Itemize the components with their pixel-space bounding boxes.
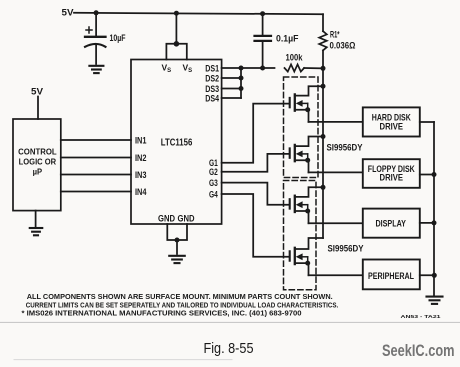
node return junction floppy (432, 172, 437, 177)
svg-text:R1*: R1* (330, 29, 340, 39)
wire DS4 (222, 97, 241, 99)
svg-text:LTC1156: LTC1156 (161, 136, 193, 148)
svg-text:CONTROL: CONTROL (18, 146, 57, 156)
wire gate G4 routing (222, 194, 289, 257)
transistor Q1 (Si9956DY half) (290, 86, 323, 122)
wire Vs bracket (166, 44, 186, 60)
load box display (363, 209, 420, 238)
wire Q2 source to floppy disk drive (309, 171, 363, 173)
wire DS3 (222, 88, 241, 90)
node rail junction at Vs feed (174, 11, 179, 16)
capacitor C2 0.1uF (255, 14, 272, 68)
svg-text:IN4: IN4 (135, 187, 147, 197)
node Q2 drain junction (321, 134, 326, 139)
transistor Q2 (Si9956DY half) (290, 137, 323, 173)
svg-text:0.036Ω: 0.036Ω (330, 40, 356, 50)
svg-text:LOGIC OR: LOGIC OR (19, 157, 57, 167)
svg-text:SI9956DY: SI9956DY (328, 244, 364, 254)
ground (below control box) (30, 228, 43, 235)
resistor R1 0.036ohm (319, 14, 327, 68)
node rail junction at C2 (260, 11, 265, 16)
wire drain bus (322, 68, 324, 238)
dashed package outline Si9956DY #1 (284, 77, 319, 178)
wire 5V to control box (37, 97, 39, 120)
dashed package outline Si9956DY #2 (284, 181, 317, 290)
wire gate G2 routing (222, 154, 289, 172)
load box floppy disk drive (363, 159, 420, 188)
svg-text:100k: 100k (286, 53, 304, 63)
wire IN3 from control logic (61, 174, 131, 176)
load box peripheral (363, 260, 420, 290)
wire 5V rail (74, 13, 323, 14)
ground (below C1) (89, 66, 103, 73)
svg-text:5V: 5V (31, 87, 43, 97)
wire Q3 source to display (309, 222, 363, 224)
svg-text:GND: GND (158, 214, 175, 224)
wire 100k to R1 node (304, 67, 323, 69)
transistor Q3 (Si9956DY half) (290, 187, 323, 223)
node return junction peripheral (432, 273, 437, 278)
wire IN4 from control logic (61, 191, 131, 193)
svg-text:IN3: IN3 (135, 170, 147, 180)
svg-text:G2: G2 (209, 167, 218, 177)
svg-text:G3: G3 (209, 178, 218, 188)
svg-text:G4: G4 (209, 189, 218, 199)
node Q1 drain junction (321, 84, 326, 89)
wire Q1 source to hard disk drive (309, 121, 363, 123)
wire control box ground lead (35, 211, 37, 227)
wire IN2 from control logic (61, 157, 131, 159)
node R1/100k junction (321, 66, 326, 71)
node DS bus (240, 68, 242, 98)
svg-text:Fig. 8-55: Fig. 8-55 (204, 341, 254, 357)
wire return rail (433, 122, 435, 296)
wire gate G3 routing (222, 183, 289, 205)
svg-text:GND: GND (178, 214, 195, 224)
wire DS2 (222, 77, 241, 79)
svg-text:PERIPHERAL: PERIPHERAL (368, 271, 414, 282)
node rail junction at 10uF (94, 10, 99, 15)
ground (below U1) (169, 256, 185, 263)
svg-text:µP: µP (33, 167, 43, 177)
node return junction display (432, 220, 437, 225)
svg-text:SI9956DY: SI9956DY (327, 143, 363, 153)
wire gate G1 routing (222, 104, 289, 163)
svg-text:DRIVE: DRIVE (380, 121, 404, 131)
wire IN1 from control logic (61, 139, 131, 141)
svg-text:5V: 5V (62, 8, 74, 18)
node C2 junction (260, 66, 265, 71)
resistor R2 100k (285, 64, 305, 71)
op-amp U1 LTC1156 body (131, 60, 222, 225)
svg-text:IN2: IN2 (135, 153, 147, 163)
svg-text:DS1: DS1 (205, 63, 219, 73)
transistor Q4 (Si9956DY half) (290, 238, 323, 275)
node Q3 drain junction (321, 185, 326, 190)
wire GND lead (176, 240, 178, 254)
node GND junction (175, 238, 180, 243)
svg-text:IN1: IN1 (135, 135, 147, 145)
svg-text:DRIVE: DRIVE (380, 173, 404, 183)
svg-text:DISPLAY: DISPLAY (375, 219, 406, 230)
wire Q4 source to peripheral (309, 274, 363, 276)
svg-text:DS4: DS4 (205, 93, 219, 103)
separator line (0, 321, 460, 323)
svg-text:DS2: DS2 (205, 73, 219, 83)
svg-text:AN53 - TA21: AN53 - TA21 (401, 314, 442, 319)
control logic box (13, 119, 61, 211)
wire peripheral to return rail (420, 274, 434, 276)
wire GND bracket (167, 224, 187, 240)
wire floppy disk drive to return rail (420, 174, 434, 176)
svg-text:0.1µF: 0.1µF (276, 33, 299, 43)
capacitor C1 10uF polarized (85, 13, 106, 64)
wire DS1 / current sense line (222, 67, 275, 69)
load box hard disk drive (363, 107, 420, 136)
node Vs bracket junction (174, 41, 180, 47)
wire display to return rail (420, 222, 434, 224)
svg-text:DS3: DS3 (205, 84, 219, 94)
wire hard disk drive to return rail (420, 121, 434, 123)
svg-text:SeekIC.com: SeekIC.com (382, 342, 455, 360)
ground (return rail) (427, 297, 443, 304)
svg-text:* IMS026 INTERNATIONAL MANUFAC: * IMS026 INTERNATIONAL MANUFACTURING SER… (22, 309, 302, 318)
wire Vs feed from rail (175, 13, 177, 44)
bottom faint line (14, 359, 232, 361)
svg-text:10µF: 10µF (110, 33, 126, 43)
